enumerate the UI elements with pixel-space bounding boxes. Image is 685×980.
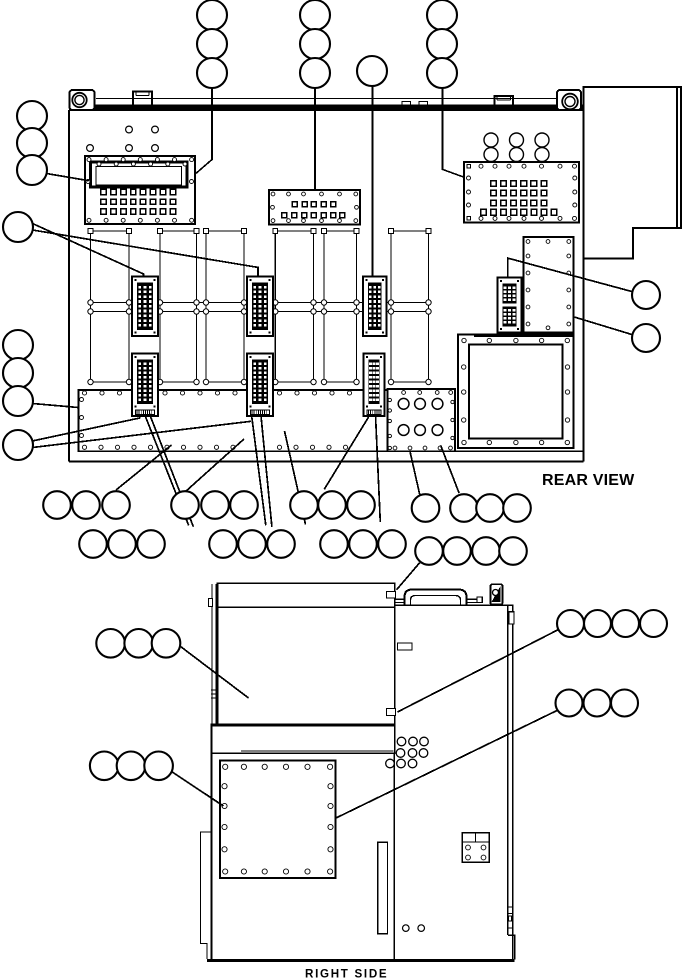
svg-text:REAR VIEW: REAR VIEW xyxy=(542,472,635,489)
svg-text:RIGHT SIDE: RIGHT SIDE xyxy=(305,968,388,980)
